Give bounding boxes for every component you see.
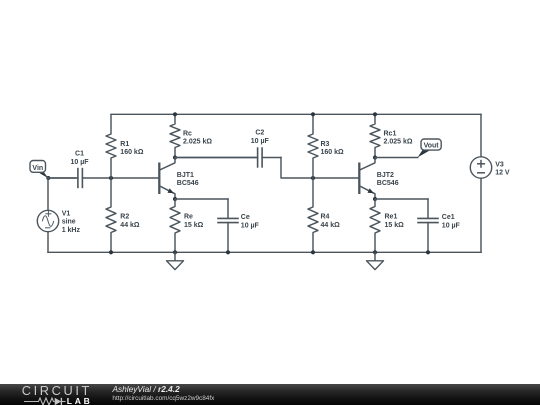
resistor Rc1 <box>370 114 380 157</box>
resistor Rc <box>170 114 180 157</box>
svg-text:10 µF: 10 µF <box>251 138 270 145</box>
svg-text:BC546: BC546 <box>377 180 399 187</box>
node Rc top <box>173 112 177 116</box>
svg-text:Rc1: Rc1 <box>384 130 397 137</box>
wire emitter to Ce <box>175 198 228 200</box>
svg-text:sine: sine <box>62 219 76 226</box>
svg-text:R1: R1 <box>120 141 129 148</box>
svg-text:10 µF: 10 µF <box>70 159 89 166</box>
node Ce1 bottom <box>426 250 430 254</box>
svg-text:15 kΩ: 15 kΩ <box>385 222 405 229</box>
node base junction stage 2 <box>311 176 315 180</box>
logo LAB <box>67 396 93 405</box>
svg-text:R2: R2 <box>120 214 129 221</box>
svg-text:Vout: Vout <box>424 143 440 150</box>
svg-text:10 µF: 10 µF <box>241 223 260 230</box>
resistor R3 <box>308 114 318 178</box>
node R2 bottom <box>109 250 113 254</box>
transistor BJT2 <box>358 163 360 195</box>
svg-text:BJT2: BJT2 <box>377 172 394 179</box>
svg-text:BJT1: BJT1 <box>177 172 194 179</box>
wire bottom rail <box>48 251 481 253</box>
svg-text:Ce: Ce <box>241 214 250 221</box>
title text <box>113 384 180 394</box>
node Ce bottom <box>226 250 230 254</box>
svg-text:2.025 kΩ: 2.025 kΩ <box>183 139 212 146</box>
footer bar <box>0 384 540 405</box>
logo squiggle resistor+diode <box>23 397 93 405</box>
ground stage 1 <box>174 252 176 260</box>
node Vin input junction <box>46 176 50 180</box>
resistor Re <box>170 199 180 252</box>
svg-text:1 kHz: 1 kHz <box>62 227 81 234</box>
svg-text:Re: Re <box>184 214 193 221</box>
capacitor C1 <box>48 177 78 179</box>
node R3 top <box>311 112 315 116</box>
svg-text:R4: R4 <box>321 214 330 221</box>
svg-text:160 kΩ: 160 kΩ <box>321 149 345 156</box>
svg-text:2.025 kΩ: 2.025 kΩ <box>384 139 413 146</box>
wire C2 elbow to BJT2 base <box>281 158 359 179</box>
ground stage 2 <box>374 252 376 260</box>
resistor R1 <box>106 114 116 178</box>
logo CIRCUIT <box>22 383 92 398</box>
flag Vout <box>418 150 431 157</box>
capacitor C2 <box>175 157 258 159</box>
wire emitter to Ce1 <box>375 198 428 200</box>
url text <box>112 395 214 402</box>
capacitor Ce <box>227 199 229 218</box>
wire top rail <box>111 113 481 115</box>
wire Vout from collector <box>375 157 418 159</box>
svg-text:15 kΩ: 15 kΩ <box>184 222 204 229</box>
wire collector to C2 <box>175 157 258 159</box>
svg-text:V3: V3 <box>495 161 504 168</box>
svg-text:44 kΩ: 44 kΩ <box>120 222 140 229</box>
node BJT1 emitter <box>173 197 177 201</box>
node Rc1 top <box>373 112 377 116</box>
svg-text:12 V: 12 V <box>495 170 510 177</box>
resistor R2 <box>106 178 116 252</box>
svg-text:Rc: Rc <box>183 130 192 137</box>
svg-text:160 kΩ: 160 kΩ <box>120 149 144 156</box>
node Rc1 bottom / BJT2 collector <box>373 155 377 159</box>
node base junction stage 1 <box>109 176 113 180</box>
node Rc bottom / BJT1 collector <box>173 155 177 159</box>
transistor BJT1 <box>158 163 160 195</box>
resistor Re1 <box>370 199 380 252</box>
svg-text:44 kΩ: 44 kΩ <box>321 222 341 229</box>
svg-text:V1: V1 <box>62 210 71 217</box>
svg-text:R3: R3 <box>321 141 330 148</box>
voltage source V1 sine <box>47 178 49 210</box>
svg-text:Re1: Re1 <box>385 214 398 221</box>
svg-text:Vin: Vin <box>32 165 43 172</box>
resistor R4 <box>308 178 318 252</box>
svg-text:C2: C2 <box>255 130 264 137</box>
svg-text:Ce1: Ce1 <box>442 214 455 221</box>
capacitor Ce1 <box>427 199 429 218</box>
wire input node to C1 <box>48 177 76 179</box>
node Re1 bottom <box>373 250 377 254</box>
wire C1 to R1/R2 junction to BJT1 base <box>111 177 159 179</box>
node Re bottom <box>173 250 177 254</box>
svg-text:BC546: BC546 <box>177 180 199 187</box>
flag Vin <box>37 171 49 178</box>
node BJT2 emitter <box>373 197 377 201</box>
voltage source V3 12V <box>480 114 482 157</box>
svg-text:10 µF: 10 µF <box>442 223 461 230</box>
node R4 bottom <box>311 250 315 254</box>
svg-text:C1: C1 <box>75 151 84 158</box>
